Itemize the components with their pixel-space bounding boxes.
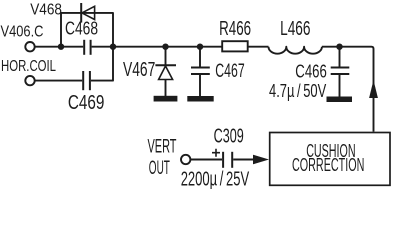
node A (58, 44, 64, 50)
wire L466 to right corner and down to box (322, 47, 374, 132)
label V467 (123, 59, 155, 81)
svg-text:2200µ / 25V: 2200µ / 25V (181, 168, 250, 189)
label C466 (295, 62, 327, 82)
box CUSHION CORRECTION (270, 133, 390, 186)
label 2200u/25V (181, 168, 250, 190)
node C (162, 44, 168, 50)
wire C466 branch (339, 47, 341, 97)
label CUSHION CORRECTION (292, 141, 364, 175)
arrow into box (253, 155, 269, 165)
capacitor C468 (84, 40, 90, 55)
label C469 (68, 92, 105, 114)
svg-text:L466: L466 (280, 18, 310, 40)
label V406.C (1, 24, 44, 41)
node D (197, 44, 203, 50)
node E (336, 44, 342, 50)
wire VERT OUT to C309 (190, 159, 222, 161)
wire main bus segment B-to-R466 (92, 46, 222, 48)
label C468 (65, 19, 98, 39)
ground under C467 (187, 96, 213, 102)
label HOR.COIL (1, 58, 56, 75)
terminal VERT OUT (181, 155, 190, 164)
label VERT OUT (148, 137, 177, 179)
svg-text:C309: C309 (214, 125, 244, 147)
svg-text:4.7µ / 50V: 4.7µ / 50V (269, 81, 326, 101)
capacitor C467 (191, 68, 210, 75)
wire main bus left segment (35, 46, 83, 48)
label V468 (30, 1, 62, 18)
wire R466 to L466 (249, 46, 269, 48)
plus polarity mark (212, 149, 220, 157)
svg-text:V467: V467 (123, 59, 155, 81)
label 4.7u/50V (269, 81, 326, 101)
arrow up on feedback wire (369, 80, 378, 98)
wire C467 branch (199, 47, 201, 97)
ground under V467 (154, 96, 178, 102)
svg-text:C466: C466 (295, 62, 327, 82)
capacitor C309 (223, 152, 232, 168)
terminal V406.C (25, 42, 34, 51)
label R466 (219, 18, 251, 40)
ground under C466 (327, 97, 353, 103)
svg-text:VERT: VERT (148, 137, 177, 158)
capacitor C466 (331, 68, 350, 75)
label C467 (215, 60, 244, 82)
terminal HOR.COIL (25, 76, 34, 85)
diode V468 branch wire (61, 13, 113, 47)
wire HOR.COIL to C469 (35, 80, 82, 82)
svg-text:CORRECTION: CORRECTION (292, 155, 364, 175)
wire V467 branch (165, 47, 167, 96)
node B (110, 44, 116, 50)
svg-text:OUT: OUT (149, 158, 170, 179)
svg-text:V468: V468 (30, 1, 62, 18)
svg-text:C469: C469 (68, 92, 105, 114)
wire C309 to arrow (233, 159, 255, 161)
diode V467 (155, 65, 176, 79)
diode V468 (81, 3, 94, 23)
label L466 (280, 18, 310, 40)
resistor R466 (222, 41, 248, 51)
inductor L466 (269, 47, 322, 54)
capacitor C469 (83, 71, 90, 90)
svg-text:HOR.COIL: HOR.COIL (1, 58, 56, 75)
svg-text:V406.C: V406.C (1, 24, 44, 41)
label C309 (214, 125, 244, 147)
wire C469 up to node B (91, 47, 113, 81)
svg-text:R466: R466 (219, 18, 251, 40)
svg-text:C467: C467 (215, 60, 244, 82)
